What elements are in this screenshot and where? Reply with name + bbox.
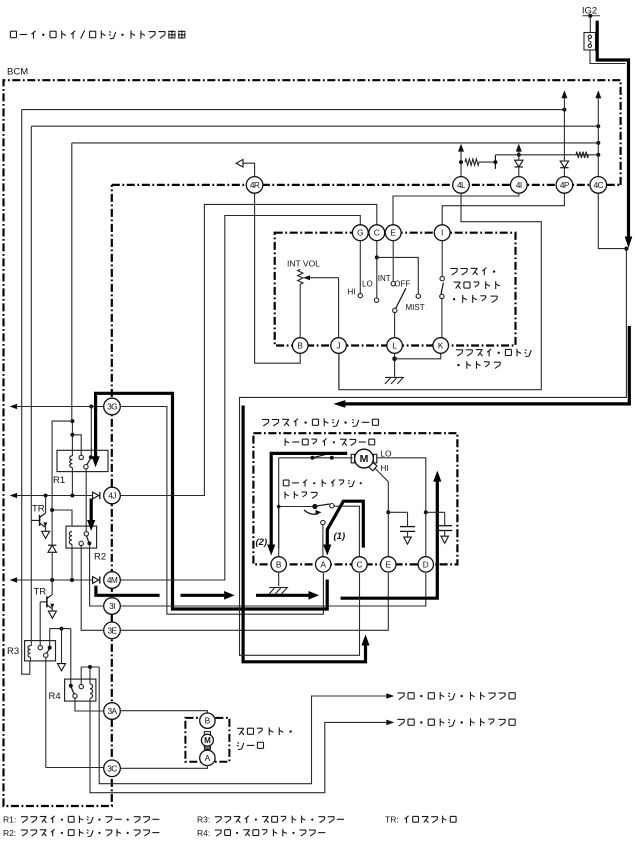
connector C (motor) bbox=[352, 557, 367, 572]
relay R4 fixed contact bbox=[79, 684, 83, 688]
wire contact1 to C bbox=[334, 506, 359, 557]
circuit breaker contacts bbox=[310, 456, 314, 460]
node dot R1 coil on 4J bus bbox=[70, 494, 74, 498]
transistor TR2 bbox=[51, 580, 53, 595]
connector G bbox=[352, 225, 368, 241]
svg-text:BCM: BCM bbox=[7, 67, 28, 78]
wire 3C to washer motor A bbox=[46, 767, 104, 769]
circuit breaker wire bbox=[279, 457, 353, 459]
node dot TR1 collector on 4J bus bbox=[44, 494, 48, 498]
capacitor C2 with ground arrow bbox=[426, 511, 445, 513]
node dot TR2 collector on 4M bus bbox=[50, 578, 54, 582]
relay R3 pivot dot bbox=[48, 646, 52, 650]
svg-text:4M: 4M bbox=[107, 575, 118, 585]
relay R4 pivot dot bbox=[69, 684, 73, 688]
thick flow wire (2): breaker to B bbox=[271, 453, 347, 545]
relay R4 coil bbox=[90, 684, 93, 698]
wire L2 bus (y=126) to 4C branch bbox=[31, 125, 598, 127]
wire v5 from x=72 dot down to R2/TR2 bbox=[52, 421, 72, 545]
svg-text:4I: 4I bbox=[516, 180, 522, 190]
relay R1 coil bbox=[70, 456, 73, 468]
wire from 3G junction down to R1 contact bbox=[90, 407, 92, 457]
svg-text:4P: 4P bbox=[560, 180, 570, 190]
svg-text:B: B bbox=[205, 716, 211, 726]
wire to rear wiper system arrow bbox=[99, 667, 388, 784]
resistor 4L branch bbox=[465, 159, 479, 165]
wire rear-washer bus over R4 bbox=[81, 666, 99, 668]
wire pot wiper to J bbox=[338, 278, 340, 338]
svg-text:4J: 4J bbox=[108, 490, 116, 500]
node auto-stop pivot branch dot bbox=[277, 505, 281, 509]
svg-text:R4: R4 bbox=[49, 691, 61, 702]
relay R2 fixed contact (from R1) bbox=[84, 532, 88, 536]
node L4-4C junction dot bbox=[596, 153, 600, 157]
transistor TR1 bbox=[31, 519, 39, 521]
svg-text:A: A bbox=[320, 559, 326, 569]
motor M1 bbox=[351, 454, 354, 463]
svg-text:L: L bbox=[392, 340, 397, 350]
wire 3E to E (motor) bbox=[120, 573, 388, 630]
thick flow wire Y4 to capacitor branch (motor) bbox=[341, 481, 438, 598]
diode at 4P bbox=[560, 161, 568, 168]
wire L4 bus bbox=[495, 154, 598, 156]
wire contact2 to A bbox=[322, 525, 324, 557]
node dot on bus with open arrow bbox=[60, 627, 64, 631]
wire IG2 thick feed upper (to 4C junction) bbox=[597, 21, 628, 238]
node L3-4C junction dot bbox=[596, 141, 600, 145]
svg-text:TR: TR bbox=[32, 504, 45, 515]
thick flow arrow into R2 contact bbox=[90, 499, 93, 522]
svg-text:C: C bbox=[357, 559, 363, 569]
relay R1 moving contact bbox=[84, 465, 88, 469]
node 4L resistor branch dot bbox=[459, 160, 463, 164]
node dot at L4 stub bar bbox=[493, 160, 497, 164]
node R1 contact junction dot bbox=[89, 455, 93, 459]
connector E (motor) bbox=[381, 557, 396, 572]
wire branch to R2 coil top bbox=[52, 510, 72, 527]
diode at 4M bbox=[93, 577, 99, 584]
wire 3G right then down to A (motor) bbox=[120, 407, 323, 615]
connector 3A bbox=[104, 703, 121, 720]
node v5 junction on R2-coil branch bbox=[50, 508, 54, 512]
wire B up to circuit breaker bbox=[278, 458, 280, 548]
svg-text:4C: 4C bbox=[594, 180, 604, 190]
title auto-light/wiper system label bbox=[10, 30, 16, 32]
wire E to INT contact bbox=[392, 241, 394, 282]
wire 4I arrow + diode bbox=[518, 150, 520, 160]
washer motor label bbox=[237, 727, 244, 729]
wire 4P arrow bbox=[563, 97, 565, 161]
wire L-K to ground bbox=[394, 353, 396, 377]
wire 4J right then up to C (switch) bbox=[120, 204, 376, 495]
diode D5 on v5 (pointing up) bbox=[48, 544, 56, 546]
connector 3I bbox=[104, 598, 121, 615]
wire IG2 to fuse bbox=[589, 16, 591, 33]
connector L bbox=[387, 338, 403, 354]
front wiper motor box (dash-dot) bbox=[253, 433, 457, 564]
svg-text:E: E bbox=[390, 228, 396, 238]
wire to auto-stop pivot bbox=[279, 506, 314, 508]
connector 4R bbox=[246, 177, 263, 194]
auto-stop switch label bbox=[283, 479, 289, 481]
wire v1 from L1 down left side to R3 coil bbox=[22, 110, 30, 675]
connector 4M bbox=[104, 572, 121, 589]
svg-text:R2:: R2: bbox=[3, 828, 16, 838]
svg-text:(1): (1) bbox=[334, 531, 346, 542]
auto-stop motion arrow bbox=[304, 510, 319, 514]
connector 4J bbox=[104, 487, 121, 504]
wire R3 common down to 3C bbox=[45, 658, 47, 768]
connector B (motor) bbox=[271, 557, 286, 572]
fuse F1 bbox=[584, 33, 596, 51]
wire 3G to left arrow bbox=[15, 406, 104, 408]
relay R3 moving contact bbox=[44, 653, 48, 657]
diode at 4J bbox=[93, 492, 99, 499]
wire 4C feed: 4C down, right, down right edge, left, down, to C (motor) bbox=[240, 193, 627, 655]
connector E bbox=[385, 225, 401, 241]
svg-text:B: B bbox=[276, 559, 282, 569]
contact INT bbox=[391, 282, 395, 286]
auto-stop switch pivot dot bbox=[312, 504, 317, 509]
svg-text:(2): (2) bbox=[256, 537, 268, 548]
rear wiper system label bbox=[397, 692, 404, 694]
wire 3I to D (motor) bbox=[120, 573, 426, 606]
wire TR1 emitter to open arrow bbox=[45, 528, 47, 531]
svg-text:INT VOL: INT VOL bbox=[287, 259, 320, 269]
washer motor box (dash-dot) bbox=[185, 718, 229, 762]
horizontal bus to R4 pivot bbox=[50, 628, 71, 630]
wire L3 bus (y=143) to 4C branch bbox=[72, 142, 599, 144]
svg-text:3I: 3I bbox=[109, 601, 115, 611]
wire 4R to open arrow bbox=[243, 163, 255, 176]
wire 4C arrow bbox=[597, 97, 599, 177]
node dot branch to v5 bbox=[70, 419, 74, 423]
svg-text:R3: R3 bbox=[7, 646, 19, 657]
wire bus down to R4 pivot bbox=[70, 629, 72, 686]
svg-text:R2: R2 bbox=[94, 552, 106, 563]
svg-text:R1: R1 bbox=[53, 475, 65, 486]
connector 3C bbox=[104, 760, 121, 777]
svg-text:A: A bbox=[205, 753, 211, 763]
circuit breaker label bbox=[284, 438, 286, 445]
relay R3 fixed contact bbox=[38, 645, 42, 649]
wire R4 to 3A bbox=[75, 699, 104, 712]
node L4-4I junction dot bbox=[517, 153, 521, 157]
svg-text:B: B bbox=[297, 340, 303, 350]
connector 3E bbox=[104, 622, 121, 639]
ground below B (motor) bbox=[269, 587, 288, 589]
wire 4M bus to left arrow bbox=[15, 579, 93, 581]
contact MIST bbox=[416, 294, 420, 298]
node dot cap2 branch bbox=[424, 510, 428, 514]
connector C bbox=[369, 225, 385, 241]
relay R1 fixed contact bbox=[79, 455, 83, 459]
thick flow arrow segment 2 bbox=[181, 594, 225, 597]
connector D (motor) bbox=[418, 557, 433, 572]
connector 4C bbox=[590, 177, 607, 194]
svg-text:TR: TR bbox=[34, 587, 47, 598]
BCM boundary segment through connectors 4R-4C bbox=[112, 184, 621, 186]
wire B up from auto-stop pivot bbox=[278, 507, 280, 558]
front wiper switch label bbox=[456, 349, 463, 351]
svg-text:R1:: R1: bbox=[3, 815, 16, 825]
wire 4J bus to left arrow bbox=[15, 495, 93, 497]
wire fuse output (thin) bbox=[590, 50, 626, 64]
node dot R4 coil top bbox=[88, 665, 92, 669]
svg-text:MIST: MIST bbox=[406, 303, 425, 312]
svg-text:TR:: TR: bbox=[385, 815, 399, 825]
wire 3I to R2 common bbox=[90, 546, 104, 607]
svg-text:LO: LO bbox=[362, 279, 373, 288]
connector 4I bbox=[511, 177, 528, 194]
node dot cap1 branch bbox=[386, 510, 390, 514]
washer motor M2 bbox=[201, 734, 213, 746]
wire motor HI to E bbox=[375, 468, 389, 557]
svg-text:4L: 4L bbox=[457, 180, 466, 190]
relay R2 moving contact dot (to 3I) bbox=[87, 541, 91, 545]
node IG2 junction dot bbox=[582, 15, 600, 17]
wire B (motor) to ground bbox=[278, 572, 280, 586]
wire motor LO to D bbox=[377, 458, 426, 557]
svg-text:HI: HI bbox=[380, 463, 389, 473]
relay R4 moving contact bbox=[73, 694, 77, 698]
connector A (washer) bbox=[200, 750, 215, 765]
thick flow arrow segment 3 bbox=[256, 594, 309, 597]
svg-text:M: M bbox=[360, 453, 369, 465]
wire R1 moving contact down to R2 fixed contact bbox=[85, 469, 87, 532]
contact HI bbox=[358, 293, 362, 297]
svg-text:3G: 3G bbox=[107, 401, 117, 411]
wire 4R down to B (switch) via bottom jog bbox=[255, 193, 301, 363]
connector 4L bbox=[453, 177, 470, 194]
svg-text:3E: 3E bbox=[108, 625, 118, 635]
connector J bbox=[331, 338, 347, 354]
wire 4M right then up to G (switch) bbox=[120, 216, 360, 581]
node 4C-IG2 junction dot bbox=[624, 247, 628, 251]
wire 3E to R2 throw contact bbox=[81, 546, 104, 631]
wire pivot to L bbox=[394, 313, 396, 338]
svg-text:I: I bbox=[441, 228, 443, 238]
ground below L bbox=[385, 376, 404, 378]
connector 4P bbox=[556, 177, 573, 194]
wire C to LO contact with MIST branch bbox=[376, 241, 378, 298]
relay R4 box bbox=[65, 679, 96, 701]
capacitor C1 with ground arrow bbox=[388, 511, 407, 513]
relay R3 box bbox=[25, 641, 56, 661]
connector K bbox=[433, 338, 449, 354]
auto-stop contact 1 (to C) bbox=[330, 504, 334, 508]
switch lever pivot bbox=[393, 308, 397, 312]
wire L1 bus (y=110) from left corner to 4P branch bbox=[22, 109, 565, 111]
wire washer switch to K bbox=[441, 299, 443, 338]
wire R3 pivot up to bus bbox=[49, 629, 51, 648]
wire R4 coil to rear wiper switch arrow bbox=[90, 698, 389, 792]
wire TR2 emitter open arrow bbox=[51, 609, 53, 611]
svg-text:INT: INT bbox=[378, 274, 391, 283]
rear wiper switch label bbox=[397, 718, 404, 720]
wire 4I down to E (switch) bbox=[393, 193, 519, 224]
svg-text:3A: 3A bbox=[108, 706, 118, 716]
relay R2 throw contact (to 3E) bbox=[79, 541, 83, 545]
relay R2 box bbox=[66, 526, 97, 548]
relay R1 box bbox=[57, 450, 108, 471]
svg-text:HI: HI bbox=[348, 288, 356, 297]
wire v2 from L2 down to TR1 base / R3 coil top bbox=[30, 126, 32, 646]
svg-text:R4:: R4: bbox=[197, 828, 210, 838]
potentiometer INT VOL bbox=[298, 269, 303, 284]
wire v5 below diode to 4M bus bbox=[51, 552, 53, 580]
wire 4L arrow to L3 bbox=[460, 151, 462, 177]
node dot R2 coil on 4M bus bbox=[70, 578, 74, 582]
wiper switch assembly box (dash-dot) bbox=[275, 233, 516, 346]
thick flow wire (1): C to A via auto-stop bbox=[327, 501, 363, 547]
front washer switch label bbox=[450, 268, 457, 270]
wire IG2 thick feed lower (to circuit-breaker arrow) bbox=[345, 326, 630, 404]
wire jog to R1 fixed contact bbox=[72, 435, 81, 455]
wire 3A to washer motor B bbox=[120, 711, 207, 714]
thick flow wire from 4M (segment 1) bbox=[96, 586, 160, 596]
wire G to HI contact bbox=[359, 241, 361, 294]
svg-text:E: E bbox=[386, 559, 392, 569]
node L1-4P junction dot bbox=[562, 108, 566, 112]
thick flow wire along IG2-C feed bbox=[243, 406, 365, 662]
front wiper motor label bbox=[262, 419, 269, 421]
svg-text:OFF: OFF bbox=[394, 279, 410, 288]
wire from L3 down to R1 (x=72) bbox=[71, 143, 73, 421]
connector B (washer) bbox=[200, 713, 215, 728]
svg-text:K: K bbox=[438, 340, 444, 350]
relay R2 coil bbox=[69, 532, 72, 545]
connector A (motor) bbox=[316, 557, 331, 572]
node dot branch to R1 fixed contact bbox=[70, 433, 74, 437]
wire pot bottom to B bbox=[299, 284, 301, 338]
svg-text:4R: 4R bbox=[250, 180, 260, 190]
svg-text:3C: 3C bbox=[107, 763, 117, 773]
wire J down to 4L loop (bottom) bbox=[338, 354, 340, 390]
washer switch contacts bbox=[440, 276, 444, 280]
wire TR2 base down to R3 fixed contact bbox=[39, 602, 41, 646]
wire 4L down to J (switch) via right loop bbox=[339, 193, 541, 389]
svg-text:R3:: R3: bbox=[197, 815, 210, 825]
washer motor brush boxes bbox=[204, 732, 210, 736]
node 3G wire junction dot bbox=[89, 405, 93, 409]
connector 3G bbox=[104, 398, 121, 415]
wire 4P down to I (switch) bbox=[442, 193, 564, 224]
thick flow wire over 3G (R1 branch) bbox=[96, 393, 328, 609]
svg-text:M: M bbox=[204, 736, 211, 745]
svg-text:C: C bbox=[374, 228, 380, 238]
node L2-4C junction dot bbox=[596, 124, 600, 128]
svg-text:J: J bbox=[337, 340, 341, 350]
contact LO bbox=[374, 298, 378, 302]
wire I to washer switch bbox=[441, 240, 443, 276]
svg-text:G: G bbox=[357, 228, 363, 238]
relay R3 coil bbox=[28, 646, 31, 658]
wire L4 bus (y=155) stub bar bbox=[494, 155, 496, 169]
connector I bbox=[434, 225, 450, 241]
resistor on L4 bus bbox=[576, 152, 589, 158]
connector B (switch) bbox=[292, 338, 308, 354]
svg-text:LO: LO bbox=[380, 449, 392, 459]
svg-text:D: D bbox=[423, 559, 429, 569]
auto-stop contact 2 (to A) bbox=[321, 520, 325, 524]
